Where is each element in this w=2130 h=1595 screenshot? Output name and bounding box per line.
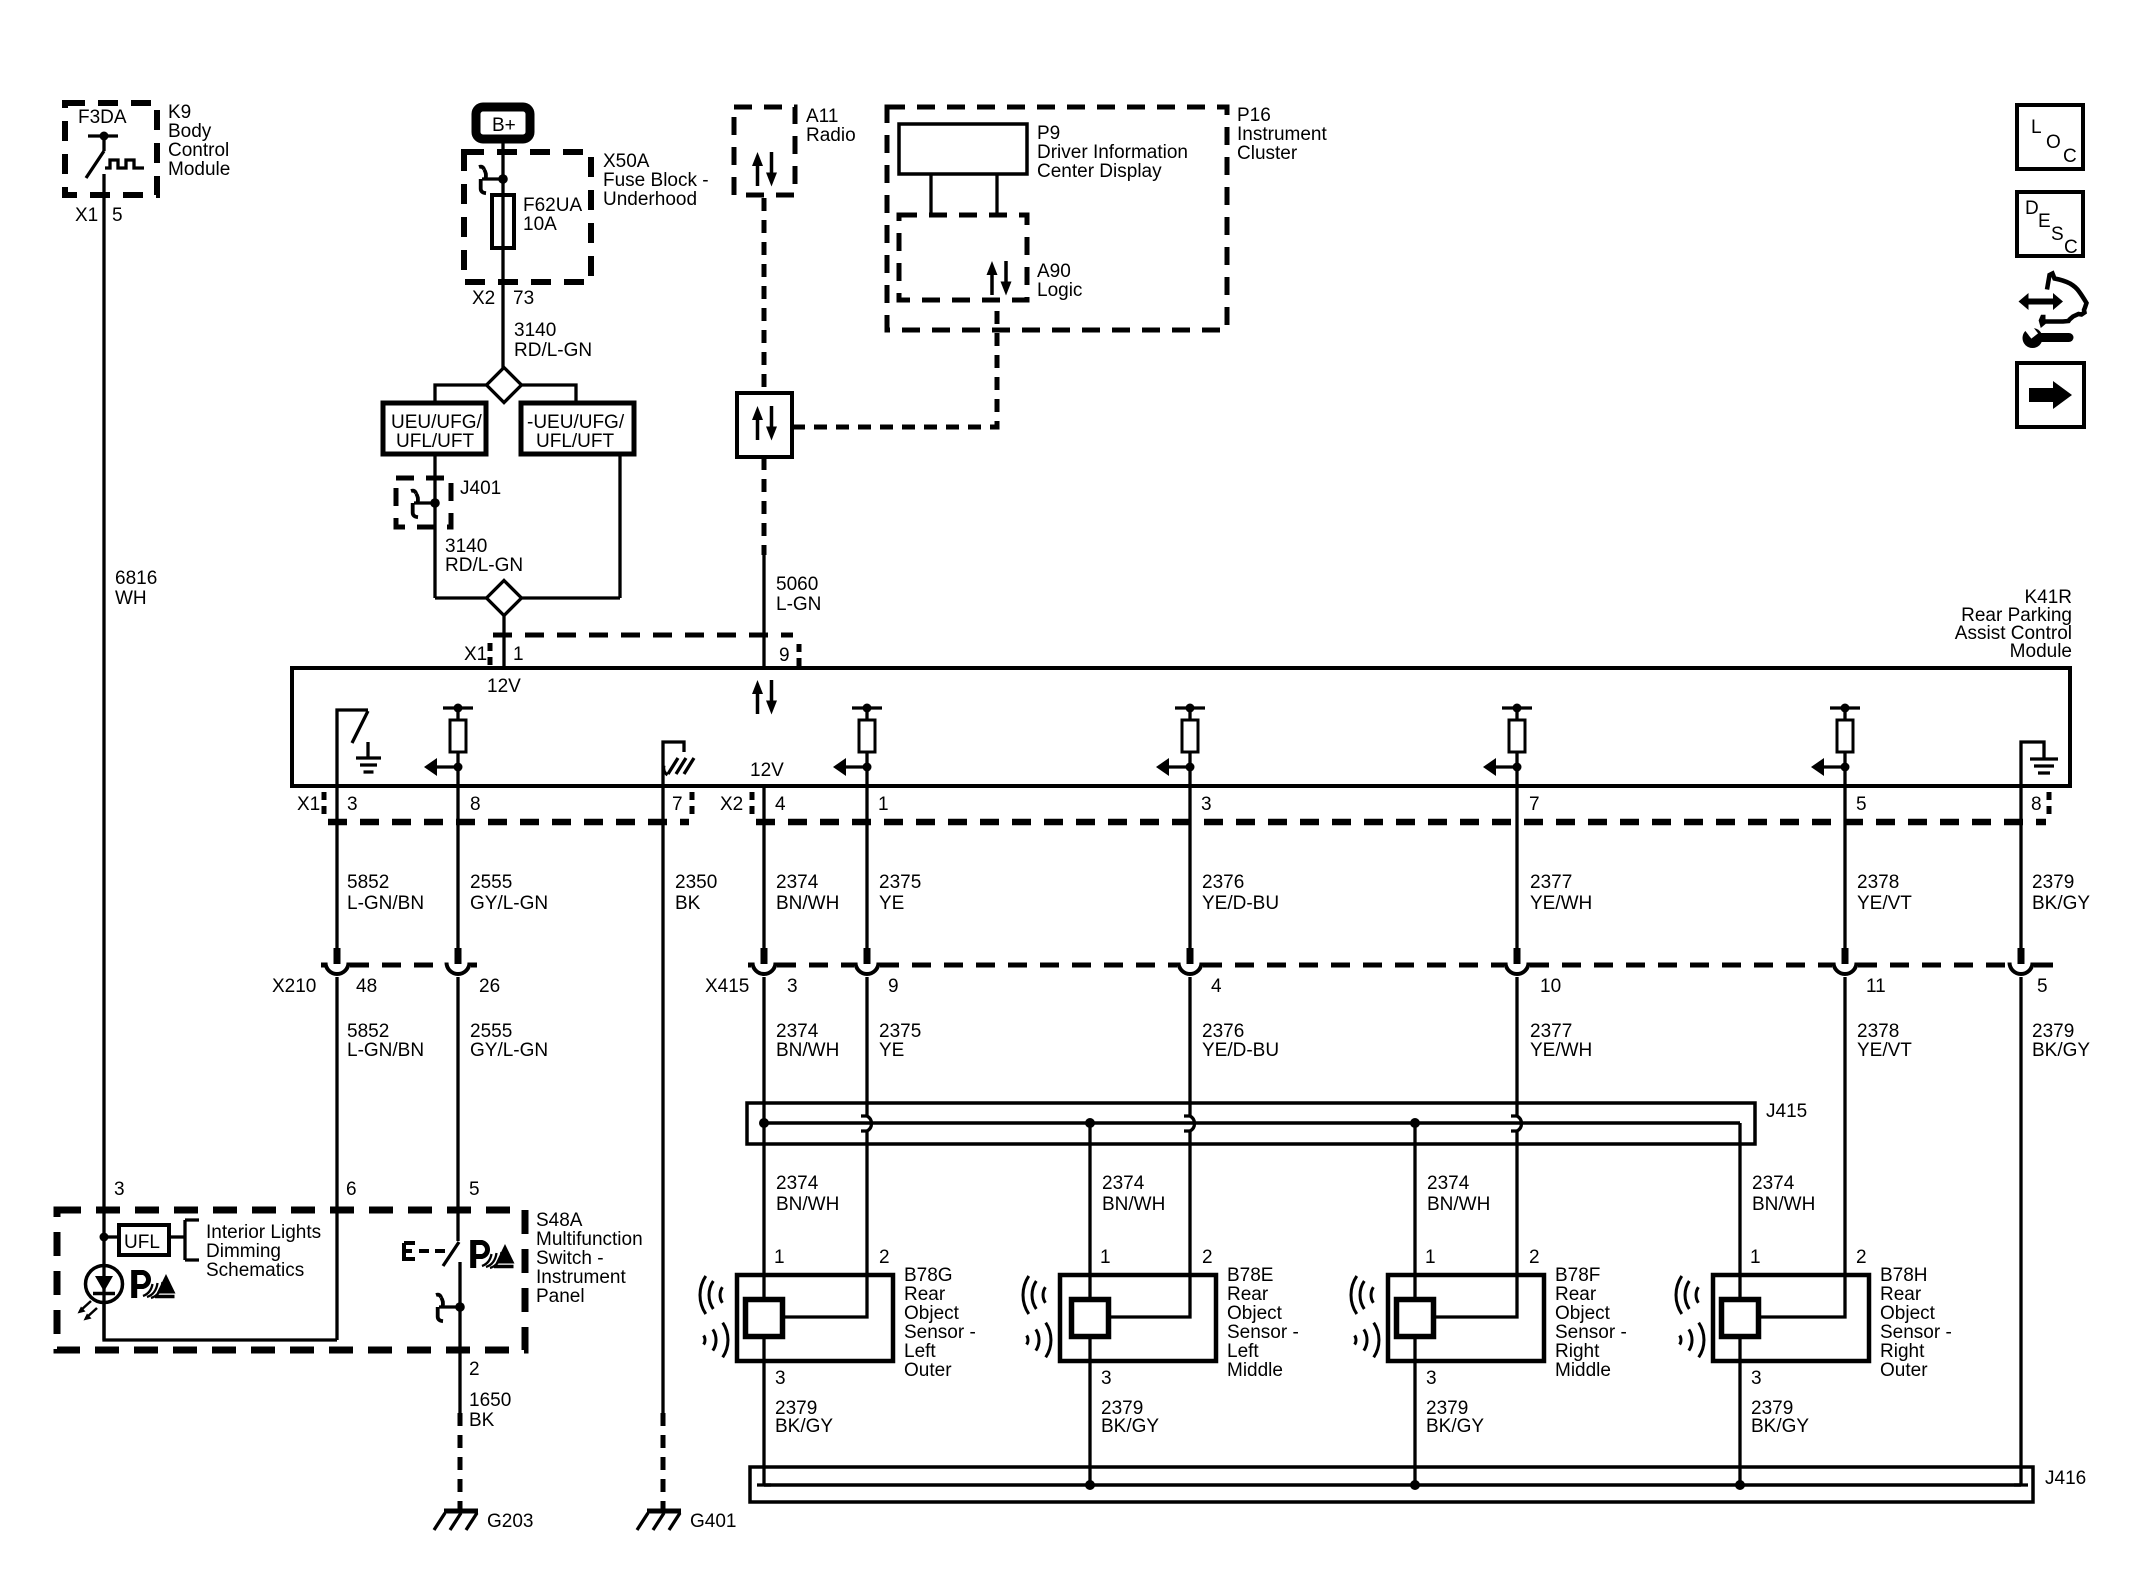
svg-text:3: 3 bbox=[1201, 794, 1212, 815]
internal earth ground at X2-8 bbox=[2021, 742, 2058, 786]
svg-text:L-GN: L-GN bbox=[776, 594, 821, 615]
svg-text:7: 7 bbox=[672, 794, 683, 815]
wire 2375 YE (X2-1 to X415-9) bbox=[867, 786, 921, 948]
svg-text:2374: 2374 bbox=[776, 1021, 819, 1042]
svg-text:Center Display: Center Display bbox=[1037, 161, 1162, 182]
switch S48A Multifunction Switch - Instrument Panel (dashed box) bbox=[57, 1210, 643, 1350]
svg-text:D: D bbox=[2025, 198, 2039, 219]
svg-text:BK/GY: BK/GY bbox=[2032, 1040, 2090, 1061]
dashed serial link to A90 bbox=[792, 305, 997, 427]
switch blade S48A (park assist switch) bbox=[404, 1242, 460, 1307]
svg-text:BN/WH: BN/WH bbox=[776, 893, 839, 914]
wire 2376 YE/D-BU (X415-4 to B78E pin 2) with hop at J415 bbox=[1184, 977, 1279, 1275]
wire from right option box down bbox=[618, 454, 621, 598]
sensor B78H Rear Object Sensor - Right Outer bbox=[1676, 1247, 1952, 1381]
internal chassis ground at X1-7 bbox=[663, 742, 694, 786]
svg-text:Radio: Radio bbox=[806, 125, 856, 146]
svg-text:B+: B+ bbox=[492, 115, 516, 136]
svg-text:Fuse Block -: Fuse Block - bbox=[603, 170, 709, 191]
wire 2378 YE/VT (X2-5 to X415-11) bbox=[1845, 786, 1912, 948]
svg-text:BN/WH: BN/WH bbox=[776, 1040, 839, 1061]
svg-text:Right: Right bbox=[1555, 1341, 1600, 1362]
wire 3140 RD/L-GN upper bbox=[503, 282, 592, 368]
svg-text:P9: P9 bbox=[1037, 123, 1060, 144]
svg-text:5060: 5060 bbox=[776, 574, 818, 595]
svg-text:GY/L-GN: GY/L-GN bbox=[470, 1040, 548, 1061]
svg-text:BK/GY: BK/GY bbox=[775, 1416, 833, 1437]
wire 2374 BN/WH (J415 to B78H pin 1) bbox=[1740, 1123, 1815, 1275]
svg-text:2375: 2375 bbox=[879, 872, 921, 893]
wire diamond to module X1-1 bbox=[502, 616, 505, 669]
svg-text:RD/L-GN: RD/L-GN bbox=[514, 340, 592, 361]
svg-text:4: 4 bbox=[1211, 976, 1222, 997]
svg-text:Right: Right bbox=[1880, 1341, 1925, 1362]
serial data symbol in A11 bbox=[752, 152, 777, 187]
fuse F62UA 10A bbox=[492, 195, 582, 282]
svg-text:3140: 3140 bbox=[514, 320, 556, 341]
svg-text:UEU/UFG/: UEU/UFG/ bbox=[391, 412, 483, 433]
pin X2 73 of fuse block bbox=[472, 288, 534, 309]
wire 2379 BK/GY (B78H pin 3 to J416) bbox=[1740, 1361, 1809, 1485]
serial data symbol at X2-9 inside module bbox=[752, 680, 777, 715]
svg-text:2374: 2374 bbox=[776, 1173, 819, 1194]
serial data wire (dashed) A11 to inline connector bbox=[762, 198, 767, 393]
svg-text:YE/D-BU: YE/D-BU bbox=[1202, 1040, 1279, 1061]
svg-text:Outer: Outer bbox=[904, 1360, 952, 1381]
pin X1 5 of K9 bbox=[75, 205, 123, 226]
svg-text:12V: 12V bbox=[750, 760, 784, 781]
svg-text:P16: P16 bbox=[1237, 105, 1271, 126]
svg-text:X1: X1 bbox=[464, 644, 487, 665]
wire 1650 BK (S48A pin 2 to G203) bbox=[460, 1307, 511, 1509]
svg-text:L-GN/BN: L-GN/BN bbox=[347, 1040, 424, 1061]
svg-text:Logic: Logic bbox=[1037, 280, 1082, 301]
splice below switch bbox=[436, 1295, 465, 1322]
svg-text:X1: X1 bbox=[297, 794, 320, 815]
svg-text:73: 73 bbox=[513, 288, 534, 309]
svg-text:Rear: Rear bbox=[1880, 1284, 1922, 1305]
svg-text:2378: 2378 bbox=[1857, 1021, 1899, 1042]
svg-text:9: 9 bbox=[888, 976, 899, 997]
svg-text:B78E: B78E bbox=[1227, 1265, 1273, 1286]
sensor B78G Rear Object Sensor - Left Outer bbox=[700, 1247, 976, 1381]
wire 2374 BN/WH (J415 to B78E pin 1) bbox=[1090, 1123, 1165, 1275]
svg-text:5: 5 bbox=[2037, 976, 2048, 997]
svg-text:1650: 1650 bbox=[469, 1390, 511, 1411]
svg-text:Sensor -: Sensor - bbox=[904, 1322, 976, 1343]
svg-text:Instrument: Instrument bbox=[1237, 124, 1327, 145]
svg-text:1: 1 bbox=[513, 644, 524, 665]
option box UEU/UFG/UFL/UFT bbox=[383, 403, 486, 454]
lamp (dimming illumination) bbox=[78, 1266, 123, 1321]
svg-text:YE/D-BU: YE/D-BU bbox=[1202, 893, 1279, 914]
svg-text:2379: 2379 bbox=[2032, 872, 2074, 893]
sensor B78E Rear Object Sensor - Left Middle bbox=[1023, 1247, 1299, 1381]
svg-text:1: 1 bbox=[1425, 1247, 1436, 1268]
svg-text:J415: J415 bbox=[1766, 1101, 1807, 1122]
splice pack J416 bbox=[750, 1467, 2086, 1502]
park assist icon (lamp) bbox=[134, 1270, 175, 1298]
svg-text:3: 3 bbox=[1101, 1368, 1112, 1389]
svg-text:X2: X2 bbox=[472, 288, 495, 309]
svg-text:F3DA: F3DA bbox=[78, 107, 127, 128]
option merge diamond (lower) bbox=[435, 581, 620, 616]
svg-text:Switch -: Switch - bbox=[536, 1248, 604, 1269]
wire B+ to fuse block bbox=[501, 143, 504, 152]
svg-text:Control: Control bbox=[168, 140, 229, 161]
internal driver at X2-3 bbox=[1156, 704, 1205, 787]
svg-text:2: 2 bbox=[469, 1359, 480, 1380]
svg-text:Sensor -: Sensor - bbox=[1555, 1322, 1627, 1343]
svg-text:B78F: B78F bbox=[1555, 1265, 1600, 1286]
svg-text:3140: 3140 bbox=[445, 536, 487, 557]
svg-text:Module: Module bbox=[168, 159, 230, 180]
wire 2375 YE (X415-9 to B78G pin 2) with hop at J415 bbox=[861, 977, 921, 1275]
wire 2378 YE/VT (X415-11 to B78H pin 2) bbox=[1845, 977, 1912, 1275]
option box -UEU/UFG/UFL/UFT bbox=[521, 403, 634, 454]
svg-text:4: 4 bbox=[775, 794, 786, 815]
svg-text:12V: 12V bbox=[487, 676, 521, 697]
connector X2 of K41R (bottom band) bbox=[720, 792, 2049, 822]
connector X210 bbox=[272, 948, 500, 997]
svg-text:8: 8 bbox=[470, 794, 481, 815]
svg-text:YE/WH: YE/WH bbox=[1530, 893, 1592, 914]
module K9 Body Control Module (dashed box F3DA) bbox=[65, 103, 157, 195]
svg-text:YE: YE bbox=[879, 893, 904, 914]
svg-text:BN/WH: BN/WH bbox=[1102, 1194, 1165, 1215]
svg-text:G203: G203 bbox=[487, 1511, 533, 1532]
svg-text:2374: 2374 bbox=[1427, 1173, 1470, 1194]
svg-text:5852: 5852 bbox=[347, 1021, 389, 1042]
svg-text:3: 3 bbox=[347, 794, 358, 815]
svg-text:10: 10 bbox=[1540, 976, 1561, 997]
wire 2376 YE/D-BU (X2-3 to X415-4) bbox=[1190, 786, 1279, 948]
svg-text:2: 2 bbox=[879, 1247, 890, 1268]
svg-text:Multifunction: Multifunction bbox=[536, 1229, 643, 1250]
svg-text:Underhood: Underhood bbox=[603, 189, 697, 210]
svg-text:Module: Module bbox=[2010, 641, 2072, 662]
wires P9 to A90 bbox=[929, 174, 932, 215]
svg-text:WH: WH bbox=[115, 588, 147, 609]
svg-text:3: 3 bbox=[775, 1368, 786, 1389]
internal switch to ground at X1-3 bbox=[337, 710, 381, 786]
nav icon LOC bbox=[2017, 105, 2083, 169]
label Interior Lights Dimming Schematics bbox=[206, 1222, 321, 1281]
inline serial data connector box bbox=[737, 393, 792, 457]
module K41R Rear Parking Assist Control Module bbox=[292, 587, 2072, 786]
svg-text:Interior Lights: Interior Lights bbox=[206, 1222, 321, 1243]
svg-text:X210: X210 bbox=[272, 976, 316, 997]
svg-text:Sensor -: Sensor - bbox=[1880, 1322, 1952, 1343]
wire from left option box down bbox=[433, 454, 436, 598]
svg-text:BK: BK bbox=[675, 893, 701, 914]
svg-text:Dimming: Dimming bbox=[206, 1241, 281, 1262]
nav icon DESC bbox=[2017, 192, 2083, 258]
svg-text:X2: X2 bbox=[720, 794, 743, 815]
svg-text:48: 48 bbox=[356, 976, 377, 997]
svg-text:2374: 2374 bbox=[776, 872, 819, 893]
svg-text:Object: Object bbox=[904, 1303, 960, 1324]
svg-text:Left: Left bbox=[904, 1341, 936, 1362]
ground G203 bbox=[434, 1511, 533, 1532]
svg-text:YE: YE bbox=[879, 1040, 904, 1061]
svg-text:BN/WH: BN/WH bbox=[1752, 1194, 1815, 1215]
wire into fuse bbox=[501, 152, 504, 195]
svg-text:S: S bbox=[2051, 224, 2064, 245]
svg-text:1: 1 bbox=[774, 1247, 785, 1268]
svg-text:6816: 6816 bbox=[115, 568, 157, 589]
wire 2379 BK/GY (B78E pin 3 to J416) bbox=[1090, 1361, 1159, 1485]
wire 5852 L-GN/BN (X210-48 to S48A pin 6) bbox=[337, 977, 424, 1340]
svg-text:G401: G401 bbox=[690, 1511, 736, 1532]
svg-text:2374: 2374 bbox=[1102, 1173, 1145, 1194]
svg-text:7: 7 bbox=[1529, 794, 1540, 815]
label K9 Body Control Module bbox=[168, 102, 230, 180]
svg-text:B78H: B78H bbox=[1880, 1265, 1928, 1286]
module P16 Instrument Cluster (dashed box) bbox=[887, 105, 1327, 330]
svg-text:YE/VT: YE/VT bbox=[1857, 1040, 1912, 1061]
svg-text:C: C bbox=[2063, 146, 2077, 167]
svg-text:1: 1 bbox=[878, 794, 889, 815]
wire 2379 BK/GY (B78G pin 3 to J416) bbox=[757, 1361, 833, 1485]
svg-text:UFL/UFT: UFL/UFT bbox=[536, 431, 615, 452]
svg-text:2379: 2379 bbox=[2032, 1021, 2074, 1042]
svg-text:Driver Information: Driver Information bbox=[1037, 142, 1188, 163]
svg-text:2555: 2555 bbox=[470, 1021, 512, 1042]
svg-text:K9: K9 bbox=[168, 102, 191, 123]
nav icon next arrow bbox=[2017, 363, 2084, 427]
svg-text:Instrument: Instrument bbox=[536, 1267, 626, 1288]
svg-text:X1: X1 bbox=[75, 205, 98, 226]
svg-text:Middle: Middle bbox=[1227, 1360, 1283, 1381]
svg-text:Body: Body bbox=[168, 121, 212, 142]
svg-text:YE/WH: YE/WH bbox=[1530, 1040, 1592, 1061]
connector X50A Fuse Block - Underhood (dashed box) bbox=[464, 151, 709, 282]
park assist icon (switch) bbox=[473, 1240, 514, 1268]
svg-text:Object: Object bbox=[1227, 1303, 1283, 1324]
connector line at module top (X1-1 / X2-9) bbox=[464, 635, 799, 666]
wire 2377 YE/WH (X2-7 to X415-10) bbox=[1517, 786, 1592, 948]
wire 2555 GY/L-GN (X1-8 to X210-26) bbox=[458, 786, 548, 948]
splice J401 (dashed box) bbox=[396, 478, 501, 527]
svg-text:Cluster: Cluster bbox=[1237, 143, 1298, 164]
svg-text:9: 9 bbox=[779, 645, 790, 666]
svg-text:6: 6 bbox=[346, 1179, 357, 1200]
serial wire below inline connector, becomes 5060 L-GN bbox=[764, 457, 821, 668]
svg-text:2376: 2376 bbox=[1202, 872, 1244, 893]
svg-text:Rear: Rear bbox=[1555, 1284, 1597, 1305]
internal driver at X2-5 bbox=[1811, 704, 1860, 787]
svg-text:1: 1 bbox=[1750, 1247, 1761, 1268]
svg-text:BN/WH: BN/WH bbox=[776, 1194, 839, 1215]
svg-text:5: 5 bbox=[112, 205, 123, 226]
wire 2377 YE/WH (X415-10 to B78F pin 2) with hop at J415 bbox=[1511, 977, 1592, 1275]
wire 2350 BK dashed tail to G401 bbox=[661, 1413, 666, 1509]
svg-text:5: 5 bbox=[469, 1179, 480, 1200]
svg-text:2375: 2375 bbox=[879, 1021, 921, 1042]
svg-text:Rear: Rear bbox=[904, 1284, 946, 1305]
wire 2379 BK/GY (X415-5 to J416) bbox=[2014, 977, 2090, 1485]
svg-text:Outer: Outer bbox=[1880, 1360, 1928, 1381]
svg-text:2377: 2377 bbox=[1530, 872, 1572, 893]
wire 6816 WH from K9 X1-5 to S48A pin 3 bbox=[104, 174, 157, 1340]
svg-text:10A: 10A bbox=[523, 214, 557, 235]
svg-text:E: E bbox=[2038, 211, 2051, 232]
wire lamp to pin6 wire (bottom of dimming section) bbox=[104, 1303, 337, 1340]
svg-text:O: O bbox=[2046, 132, 2061, 153]
nav icon vehicle with double arrow and wrench bbox=[2019, 274, 2087, 349]
svg-text:2: 2 bbox=[1529, 1247, 1540, 1268]
svg-text:2: 2 bbox=[1856, 1247, 1867, 1268]
wire 2350 BK (X1-7 to G401) bbox=[663, 786, 717, 1413]
svg-text:GY/L-GN: GY/L-GN bbox=[470, 893, 548, 914]
connector X415 bbox=[705, 948, 2057, 997]
svg-text:3: 3 bbox=[1426, 1368, 1437, 1389]
svg-text:S48A: S48A bbox=[536, 1210, 583, 1231]
svg-text:RD/L-GN: RD/L-GN bbox=[445, 555, 523, 576]
svg-text:Rear: Rear bbox=[1227, 1284, 1269, 1305]
svg-text:2376: 2376 bbox=[1202, 1021, 1244, 1042]
svg-text:8: 8 bbox=[2031, 794, 2042, 815]
svg-text:UFL: UFL bbox=[124, 1232, 160, 1253]
svg-text:2555: 2555 bbox=[470, 872, 512, 893]
wire 3140 RD/L-GN lower label bbox=[445, 536, 523, 576]
svg-text:3: 3 bbox=[114, 1179, 125, 1200]
svg-text:BK/GY: BK/GY bbox=[2032, 893, 2090, 914]
svg-text:L-GN/BN: L-GN/BN bbox=[347, 893, 424, 914]
switch (PWM output) inside K9 bbox=[86, 132, 144, 179]
svg-text:5: 5 bbox=[1856, 794, 1867, 815]
svg-text:BK: BK bbox=[469, 1410, 495, 1431]
svg-text:Left: Left bbox=[1227, 1341, 1259, 1362]
svg-text:-UEU/UFG/: -UEU/UFG/ bbox=[527, 412, 625, 433]
sensor B78F Rear Object Sensor - Right Middle bbox=[1351, 1247, 1627, 1381]
svg-text:1: 1 bbox=[1100, 1247, 1111, 1268]
logic block A90 (dashed box) bbox=[899, 215, 1082, 301]
svg-text:B78G: B78G bbox=[904, 1265, 953, 1286]
pin labels above S48A box bbox=[114, 1179, 480, 1200]
internal driver at X2-1 bbox=[833, 704, 882, 787]
svg-text:2350: 2350 bbox=[675, 872, 717, 893]
svg-text:X50A: X50A bbox=[603, 151, 650, 172]
svg-text:Panel: Panel bbox=[536, 1286, 585, 1307]
svg-text:UFL/UFT: UFL/UFT bbox=[396, 431, 475, 452]
svg-text:BK/GY: BK/GY bbox=[1426, 1416, 1484, 1437]
svg-text:BK/GY: BK/GY bbox=[1101, 1416, 1159, 1437]
svg-text:X415: X415 bbox=[705, 976, 749, 997]
svg-text:2374: 2374 bbox=[1752, 1173, 1795, 1194]
connector X1 of K41R (bottom band) bbox=[297, 792, 692, 822]
svg-text:5852: 5852 bbox=[347, 872, 389, 893]
internal driver at X1-8 bbox=[424, 704, 473, 787]
display P9 Driver Information Center Display bbox=[899, 123, 1188, 182]
svg-text:A11: A11 bbox=[806, 106, 838, 127]
svg-text:A90: A90 bbox=[1037, 261, 1071, 282]
svg-text:J416: J416 bbox=[2045, 1468, 2086, 1489]
svg-text:2: 2 bbox=[1202, 1247, 1213, 1268]
svg-text:11: 11 bbox=[1866, 976, 1886, 997]
svg-text:YE/VT: YE/VT bbox=[1857, 893, 1912, 914]
module A11 Radio (dashed box) bbox=[734, 106, 856, 195]
svg-text:C: C bbox=[2064, 237, 2078, 258]
svg-text:Object: Object bbox=[1555, 1303, 1611, 1324]
ground G401 bbox=[637, 1511, 736, 1532]
wire 2379 BK/GY (X2-8 to X415-5) bbox=[2021, 786, 2090, 948]
svg-text:Object: Object bbox=[1880, 1303, 1936, 1324]
wire 2374 BN/WH (X415-3 to J415) bbox=[764, 977, 839, 1275]
wire 2374 BN/WH (J415 to B78F pin 1) bbox=[1415, 1123, 1490, 1275]
splice in fuse block bbox=[479, 167, 508, 194]
wire 5852 L-GN/BN (X1-3 to X210-48) bbox=[337, 786, 424, 948]
internal driver at X2-7 bbox=[1483, 704, 1532, 787]
wire 2374 BN/WH (X2-4 to X415-3) bbox=[764, 786, 839, 948]
svg-text:2378: 2378 bbox=[1857, 872, 1899, 893]
svg-text:BK/GY: BK/GY bbox=[1751, 1416, 1809, 1437]
power symbol B+ bbox=[476, 107, 530, 139]
splice pack J415 bbox=[747, 1101, 1807, 1144]
svg-text:BN/WH: BN/WH bbox=[1427, 1194, 1490, 1215]
wire 2555 GY/L-GN (X210-26 to S48A pin 5) bbox=[458, 977, 548, 1241]
svg-text:Sensor -: Sensor - bbox=[1227, 1322, 1299, 1343]
svg-text:2377: 2377 bbox=[1530, 1021, 1572, 1042]
svg-text:F62UA: F62UA bbox=[523, 195, 582, 216]
option split diamond (upper) bbox=[435, 368, 576, 404]
svg-text:J401: J401 bbox=[460, 478, 501, 499]
svg-text:3: 3 bbox=[787, 976, 798, 997]
wire 2379 BK/GY (B78F pin 3 to J416) bbox=[1415, 1361, 1484, 1485]
svg-text:3: 3 bbox=[1751, 1368, 1762, 1389]
svg-text:Middle: Middle bbox=[1555, 1360, 1611, 1381]
node UFL option tap bbox=[100, 1220, 200, 1260]
svg-text:Schematics: Schematics bbox=[206, 1260, 304, 1281]
svg-text:L: L bbox=[2031, 117, 2042, 138]
svg-text:26: 26 bbox=[479, 976, 500, 997]
